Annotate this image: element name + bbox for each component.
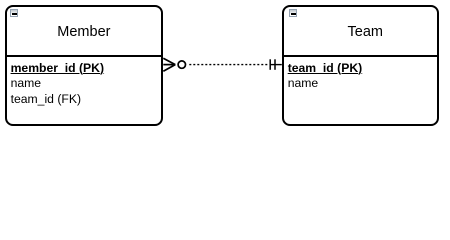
row name bbox=[11, 76, 104, 92]
foreign key row team_id (FK) bbox=[11, 92, 104, 108]
circle (zero / optional) bbox=[178, 61, 185, 68]
primary key row team_id (PK) bbox=[288, 61, 363, 77]
row name bbox=[288, 76, 363, 92]
Team attribute rows bbox=[288, 61, 363, 92]
solid wire end at Team bbox=[270, 64, 282, 66]
Team title bar with divider bbox=[284, 7, 437, 57]
relationship edge Member-Team (crow's foot, zero-or-many to exactly-one) bbox=[0, 0, 450, 132]
Team title text bbox=[284, 25, 437, 40]
Member title bar with divider bbox=[7, 7, 161, 57]
crow's foot middle prong bbox=[163, 64, 175, 66]
Member title text bbox=[7, 25, 161, 40]
tick mark 1 (one) bbox=[269, 59, 271, 70]
collapse (minus) icon of Team bbox=[289, 9, 297, 17]
entity table Member bbox=[5, 5, 163, 125]
Member attribute rows bbox=[11, 61, 104, 108]
primary key row member_id (PK) bbox=[11, 61, 104, 77]
dashed relationship wire bbox=[189, 64, 267, 66]
crow's foot bottom prong bbox=[163, 65, 175, 72]
crow's foot (many) top prong bbox=[163, 58, 175, 64]
collapse (minus) icon of Member bbox=[10, 9, 18, 17]
entity table Team bbox=[282, 5, 439, 125]
tick mark 2 (one) bbox=[274, 59, 276, 70]
